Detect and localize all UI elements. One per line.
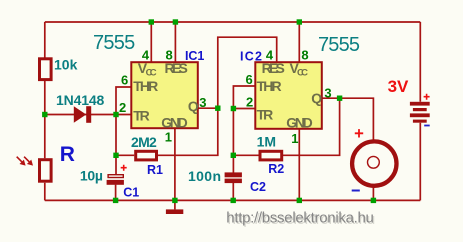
svg-text:1: 1 [165,130,172,145]
node bottom rail / C1 [113,198,118,203]
battery 3V [410,102,430,123]
wire C2 bottom lead [232,183,234,201]
node left rail / diode anode [42,112,47,117]
node top rail / IC1 pin8 [173,19,178,24]
svg-text:RES: RES [262,60,285,76]
svg-text:THR: THR [133,78,158,94]
wire IC2 timing node vertical [232,109,234,173]
node bottom rail / IC1 GND [172,198,177,203]
op-amp IC1 timer box [131,62,198,128]
wire IC1 timing node vertical [115,115,117,175]
svg-text:Q: Q [311,90,322,106]
svg-text:8: 8 [301,48,308,63]
IC1 pin name VCC [138,60,157,78]
resistor R1 [136,151,157,160]
resistor R2 [260,151,282,160]
speaker LS1 [352,141,396,185]
wire C1 bottom lead [115,185,117,201]
node junctions (green squares) [42,19,376,203]
node IC2 TR/THR [231,106,236,111]
ground symbol [166,200,183,214]
polarity + of C1 [121,165,127,171]
node top rail / IC1 pin4 [149,19,154,24]
node diode cathode / IC1 TR [113,112,118,117]
svg-text:C1: C1 [123,186,139,200]
wire Q1 to IC2 pin4 [218,37,277,108]
svg-text:2M2: 2M2 [131,134,157,150]
wire R1 left lead [116,154,134,156]
diode D1 1N4148 [74,106,91,123]
svg-text:1M: 1M [257,134,276,150]
wire IC2 Q pin3 [322,97,340,99]
svg-text:R2: R2 [268,162,284,176]
svg-text:RES: RES [165,60,188,76]
wire IC2 TR pin2 [233,108,255,110]
wire diode row to IC1 TR [45,114,132,116]
polarity - of battery [424,125,430,127]
wire IC1 THR branch [116,87,132,115]
svg-text:100n: 100n [188,168,221,184]
wire top rail [45,21,421,23]
node IC2 Q / R2 [337,96,342,101]
wire IC1 pin4 drop [150,22,152,62]
IC2 pin name VCC [290,60,309,78]
node bottom rail / speaker [371,198,376,203]
wire left rail [44,22,46,200]
svg-text:TR: TR [133,108,150,124]
wire bottom rail [45,199,421,201]
svg-text:6: 6 [121,73,128,88]
wire IC2 pin8 drop [298,22,300,63]
svg-text:CC: CC [297,67,308,78]
svg-text:3: 3 [324,85,331,100]
svg-text:IC1: IC1 [185,49,204,63]
wire R2 right lead up to Q2 [282,98,340,155]
svg-text:IC2: IC2 [240,49,262,63]
resistor R (LDR) [40,160,52,182]
resistor 10k [40,59,52,80]
node bottom rail / IC2 GND [297,198,302,203]
svg-text:TR: TR [257,106,274,122]
wire IC2 THR branch [233,86,255,109]
svg-text:10µ: 10µ [80,168,103,184]
svg-text:R1: R1 [147,163,163,177]
svg-text:10k: 10k [54,57,78,73]
wire right rail (battery branch) [419,22,421,200]
svg-text:GND: GND [286,114,313,130]
svg-text:6: 6 [246,72,253,87]
svg-text:http://bsselektronika.hu: http://bsselektronika.hu [226,210,374,227]
svg-text:2: 2 [119,100,126,115]
svg-text:CC: CC [146,67,157,78]
LDR light arrows [17,157,33,166]
svg-text:7555: 7555 [318,34,360,56]
svg-text:3V: 3V [388,77,409,96]
svg-text:2: 2 [246,94,253,109]
polarity - of speaker [352,190,360,192]
wire IC2 GND pin1 drop [298,130,300,201]
svg-text:Q: Q [188,98,199,114]
wire R2 left lead [233,154,260,156]
node top rail / IC2 pin8 [297,19,302,24]
svg-text:3: 3 [199,95,206,110]
capacitor C1 electrolytic [107,175,124,185]
svg-text:1N4148: 1N4148 [56,92,105,108]
svg-text:7555: 7555 [93,32,135,54]
node R2 left / C2 [231,153,236,158]
polarity + of speaker [355,129,363,137]
node IC1 Q / R1 [215,106,220,111]
wire IC1 GND pin1 drop [174,129,176,200]
svg-text:THR: THR [257,78,282,94]
op-amp IC2 timer box [255,62,321,129]
wire IC1 Q pin3 [198,107,218,109]
svg-text:GND: GND [161,114,188,130]
polarity + of battery [424,94,430,100]
wire R1 right lead up to Q1 [158,108,218,155]
capacitor C2 100n [225,172,242,183]
node bottom rail / C2 [231,198,236,203]
svg-text:R: R [60,143,75,166]
wire speaker bottom lead [372,188,374,201]
svg-text:C2: C2 [250,180,266,194]
svg-text:1: 1 [291,131,298,146]
node R1 left / C1 [113,153,118,158]
wire Q2 to speaker [340,98,374,140]
wire IC1 pin8 drop [174,22,176,62]
